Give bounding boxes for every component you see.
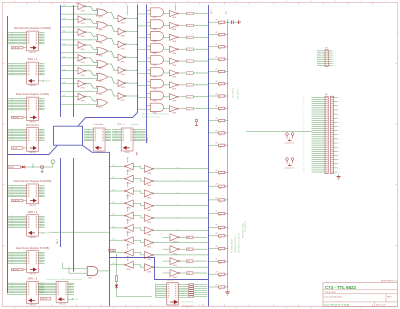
svg-text:N12: N12 [338,122,341,124]
svg-text:P10: P10 [303,118,305,120]
bus Z (bottom link B5 to B4) [110,258,209,280]
svg-text:74F32: 74F32 [99,68,103,70]
AND gate U23B [137,20,164,31]
svg-text:R6: R6 [219,85,221,87]
svg-text:74F08: 74F08 [153,65,157,67]
inverter U22E [108,64,138,76]
net label box row 4 [186,60,193,62]
OR gate U21H [61,97,108,109]
svg-text:4K7: 4K7 [216,170,219,172]
IC U1 (DDRA latch 74573) [7,27,51,54]
svg-text:DPB_RD: DPB_RD [41,299,48,301]
svg-text:P27: P27 [303,153,305,155]
IC U8b (port B read buffer) [38,282,79,306]
svg-text:74HC573: 74HC573 [29,205,36,207]
svg-text:P11: P11 [303,120,305,122]
wire VCC stub (label column top) [175,5,177,11]
svg-text:P21: P21 [303,140,305,142]
net label DRB_RD (IC U6 (DRB+2 buffer 74245)) [38,232,41,234]
svg-text:74F32: 74F32 [99,94,103,96]
LED D2 [115,285,118,288]
inverter U30E (bus driver, faces left) [109,207,141,222]
svg-text:74F32: 74F32 [99,30,103,32]
inverter U32A [163,234,208,244]
svg-text:74245: 74245 [125,152,130,154]
svg-text:R15: R15 [219,215,222,217]
svg-text:R8: R8 [219,110,221,112]
inverter U30B (bus driver, faces left) [109,170,141,185]
svg-text:4K7: 4K7 [216,225,219,227]
svg-text:P33: P33 [303,165,305,167]
svg-text:74F04: 74F04 [121,87,125,89]
net label ORB_WR (IC U7 (ORB latch 74573)) [11,268,23,270]
inverter U31E [141,215,208,225]
svg-text:DRB_RD: DRB_RD [44,233,51,235]
bus serpentine exit to B5 [83,145,110,306]
svg-text:P36: P36 [303,171,305,173]
inverter U30I (bus driver, faces left) [109,256,141,271]
svg-text:74F04: 74F04 [126,232,130,234]
inverter U20G [60,80,86,89]
svg-text:74F04: 74F04 [147,173,151,175]
svg-text:74F04: 74F04 [81,101,85,103]
svg-text:P32: P32 [303,163,305,165]
svg-text:74F04: 74F04 [147,198,151,200]
svg-text:CB0: CB0 [187,237,190,239]
svg-text:74F04: 74F04 [147,271,151,273]
svg-text:4K7: 4K7 [216,106,219,108]
wire VCC stub (col3 top) [127,5,129,15]
inverter U32D [163,270,208,280]
svg-text:R5: R5 [219,73,221,75]
svg-text:74F04: 74F04 [81,36,85,38]
svg-text:PB4_IN: PB4_IN [176,216,180,218]
svg-text:4K7: 4K7 [216,20,219,22]
AND gate U23I [137,103,163,114]
wire [116,288,118,297]
svg-text:R12: R12 [219,174,222,176]
supply flags A VCC flag 2 [291,133,294,139]
svg-text:N36: N36 [338,171,341,173]
svg-text:Data Output Register A (ORA): Data Output Register A (ORA) [16,93,50,96]
IC U4 (Port Input A 74245) [7,124,44,154]
svg-text:R16: R16 [219,229,222,231]
inverter U24H [163,94,208,103]
testpoint circle (reset line) [51,160,55,164]
svg-text:R2: R2 [219,36,221,38]
svg-text:Y3_O: Y3_O [187,49,190,51]
svg-text:74573: 74573 [97,152,102,154]
svg-text:SV2: SV2 [325,94,328,96]
svg-text:DDRB_WRITE_STROBE_SEL: DDRB_WRITE_STROBE_SEL [239,232,241,253]
svg-text:SV1: SV1 [325,48,328,50]
svg-text:R4: R4 [219,61,221,63]
svg-text:74F04: 74F04 [173,241,177,243]
svg-text:PB0: PB0 [113,165,116,167]
svg-text:CB2: CB2 [187,261,190,263]
supply flags B VCC flag [286,158,289,164]
svg-text:PB4: PB4 [113,214,116,216]
wire DRB_RD to bus B5 [50,231,110,233]
resistor R21 (pull-up) [208,284,228,290]
inverter U32B [163,246,208,256]
svg-text:P22: P22 [303,142,305,144]
svg-text:TTL 6522 release 2: TTL 6522 release 2 [182,305,194,307]
svg-text:PDR[0..7]: PDR[0..7] [147,135,149,142]
svg-text:R11: R11 [219,147,222,149]
svg-text:DRA + 2: DRA + 2 [28,58,38,61]
net label box row 5 [186,72,193,74]
svg-text:N34: N34 [338,167,341,169]
inverter U20H [60,93,86,102]
inverter U22G [108,90,138,102]
wire (reset feed) [116,255,118,276]
OR gate U21A [61,6,108,18]
svg-text:1: 1 [1,276,2,278]
svg-text:N22: N22 [338,142,341,144]
resistor R14 (pull-up) [208,197,228,203]
inverter U24E [163,58,208,67]
svg-text:74F04: 74F04 [121,36,125,38]
bus B3 (buffered bus, lower) [73,158,75,272]
svg-text:74F04: 74F04 [147,259,151,261]
inverter U30G (bus driver, faces left) [109,231,141,246]
svg-text:Port Reader: Port Reader [94,123,104,126]
svg-text:N24: N24 [338,147,341,149]
inverter U22B [108,25,138,37]
resistor R20 (pull-up) [208,272,228,278]
AND gate U23A [137,8,164,19]
OR gate U21G [61,84,108,96]
net label DDRB_WR (IC U5 (DDRB latch 74573)) [11,199,23,201]
svg-text:CB0: CB0 [197,236,200,238]
inverter U30A (bus driver, faces left) [109,157,141,172]
net label DRA_RD (IC U2 (DRA+2 buffer 74245)) [38,80,41,82]
net label box row 8 [186,108,193,110]
resistor R7 (pull-up) [208,93,228,99]
net label PIA_RD (IC U4 (Port Input A 74245)) [11,147,23,149]
svg-text:4K7: 4K7 [216,44,219,46]
svg-text:4K7: 4K7 [216,197,219,199]
svg-text:74F04: 74F04 [172,77,176,79]
net label box U32D [186,272,193,274]
inverter U31C [141,190,208,200]
svg-text:PB2: PB2 [113,189,116,191]
svg-text:P18: P18 [303,134,305,136]
IC U8 (DPB+2 buffer 74245) [7,278,44,307]
svg-text:4K7: 4K7 [216,130,219,132]
svg-text:4K7: 4K7 [216,246,219,248]
svg-text:74F04: 74F04 [81,23,85,25]
svg-text:74F08: 74F08 [153,53,157,55]
svg-text:N26: N26 [338,151,341,153]
svg-text:4K7: 4K7 [216,118,219,120]
svg-text:B: B [39,1,40,3]
IC U7 (ORB latch 74573) [7,247,49,276]
svg-text:74F04: 74F04 [126,183,130,185]
svg-text:N16: N16 [338,130,341,132]
inverter U20A [60,3,86,12]
net label ORA_WR (IC U3 (ORA latch 74573)) [11,116,23,118]
inverter U31F [141,227,208,237]
svg-text:74HC245: 74HC245 [29,305,36,307]
svg-text:74F04: 74F04 [147,210,151,212]
svg-text:74F32: 74F32 [99,55,103,57]
svg-text:PB8: PB8 [113,263,116,265]
svg-text:3: 3 [1,154,2,156]
net label box row 3 [186,48,193,50]
svg-text:74HC573: 74HC573 [29,52,36,54]
svg-text:P26: P26 [303,151,305,153]
inverter U31H [141,251,208,261]
svg-text:4K7: 4K7 [216,69,219,71]
svg-text:74F32: 74F32 [99,42,103,44]
svg-text:R14: R14 [219,202,222,204]
wire [116,281,118,284]
inverter U24B [163,22,208,31]
svg-text:P12: P12 [303,122,305,124]
inverter U31B [141,178,208,188]
svg-text:74HC245: 74HC245 [29,237,36,239]
svg-text:Date: 8/25/2013 17:29:42: Date: 8/25/2013 17:29:42 [325,303,350,306]
svg-text:74F04: 74F04 [81,10,85,12]
svg-text:Y5_O: Y5_O [187,73,190,75]
svg-text:4K7: 4K7 [216,57,219,59]
net label box row 6 [186,84,193,86]
inverter U31A [141,165,208,175]
net label box row 2 [186,36,193,38]
OR gate U21D [61,45,108,57]
resistor R24 (reset pull) [41,166,44,168]
net label RES (reset line) [8,166,21,169]
svg-text:Y8_O: Y8_O [187,108,190,110]
inverter U31G [141,239,208,249]
svg-text:RESET: RESET [9,167,14,169]
svg-text:74F04: 74F04 [172,41,176,43]
IC U12 (PDR+2 buffer) [112,128,146,154]
svg-text:4K7: 4K7 [216,211,219,213]
svg-text:74HC573: 74HC573 [29,274,36,276]
svg-text:1: 1 [398,276,399,278]
OR gate U21B [61,19,108,31]
svg-text:PB3: PB3 [113,202,116,204]
OR gate U21F [61,71,108,83]
svg-text:PB5: PB5 [113,226,116,228]
supply flags B ground [288,164,292,166]
svg-text:P20: P20 [303,138,305,140]
svg-text:2: 2 [1,215,2,217]
svg-text:4K7: 4K7 [216,272,219,274]
resistor R1 (pull-up) [208,20,228,26]
svg-text:R9: R9 [219,122,221,124]
svg-text:P23: P23 [303,145,305,147]
svg-text:C74 - TTL 6522: C74 - TTL 6522 [325,285,356,290]
ground (resistor column bottom) [225,289,229,295]
svg-text:74F04: 74F04 [173,277,177,279]
diode D1 on reset line [22,166,25,169]
svg-text:74F04: 74F04 [126,171,130,173]
resistor R10 (pull-up) [208,130,228,136]
svg-text:Y0_O: Y0_O [187,13,190,15]
net label box row 0 [186,12,193,14]
svg-text:R21: R21 [219,289,222,291]
svg-text:2: 2 [398,215,399,217]
resistor R6 (pull-up) [208,81,228,87]
jumper block JP1 [189,284,207,298]
svg-text:CB1: CB1 [187,249,190,251]
svg-text:P14: P14 [303,126,305,128]
inverter U22F [108,77,138,89]
AND gate G1 (port B enable) [63,263,109,280]
svg-text:T: T [384,1,385,3]
svg-text:74F04: 74F04 [121,23,125,25]
svg-text:PB_EN: PB_EN [110,250,114,252]
svg-text:74F08: 74F08 [153,100,157,102]
svg-text:P34: P34 [303,167,305,169]
svg-text:74F04: 74F04 [81,49,85,51]
svg-text:74F04: 74F04 [126,245,130,247]
svg-text:Data Direction Register B (DDR: Data Direction Register B (DDRB) [14,180,52,183]
ground (SV2) [337,174,341,180]
resistor R13 (pull-up) [208,184,228,190]
svg-text:P35: P35 [303,169,305,171]
resistor R11 (pull-up) [208,143,228,149]
svg-text:74F04: 74F04 [173,253,177,255]
svg-text:N10: N10 [338,118,341,120]
AND gate U23E [137,56,163,67]
svg-text:74F04: 74F04 [126,195,130,197]
svg-text:74F04: 74F04 [172,112,176,114]
OR gate U21C [61,32,108,44]
net label DDRA_WR (IC U1 (DDRA latch 74573)) [11,47,23,49]
svg-text:74F32: 74F32 [99,81,103,83]
svg-text:P31: P31 [303,161,305,163]
svg-text:PB0_IN: PB0_IN [176,167,180,169]
resistor R4 (pull-up) [208,57,228,63]
svg-text:DRB + 2: DRB + 2 [28,211,38,214]
inverter U24I [163,106,208,115]
bus B7 [146,5,148,144]
svg-text:74F04: 74F04 [81,88,85,90]
svg-text:74F04: 74F04 [147,222,151,224]
svg-text:DPB + 2: DPB + 2 [28,278,38,281]
svg-text:N14: N14 [338,126,341,128]
net label box U32A [186,236,193,238]
svg-text:F: F [138,1,139,3]
net label box U32B [186,248,193,250]
svg-text:R17: R17 [219,237,222,239]
IC U9 (control register 74573) [156,280,189,305]
inverter U30H (bus driver, faces left) [109,243,141,258]
svg-text:R19: R19 [219,263,222,265]
svg-text:N32: N32 [338,163,341,165]
net label PB_RD (IC U8b (port B read buffer)) [68,298,71,300]
svg-text:5: 5 [398,32,399,34]
svg-text:P30: P30 [303,159,305,161]
svg-text:74HC245: 74HC245 [59,303,66,305]
svg-text:P29: P29 [303,157,305,159]
svg-text:REV:: REV: [387,297,392,299]
IC U5 (DDRB latch 74573) [7,180,51,207]
svg-text:PB6: PB6 [113,239,116,241]
svg-text:74F04: 74F04 [172,17,176,19]
inverter U24F [163,70,208,79]
svg-text:P17: P17 [303,132,305,134]
svg-text:4K7: 4K7 [216,259,219,261]
inverter U32C [163,258,208,268]
inverter U31I [141,264,208,274]
inverter U20F [60,67,86,76]
svg-text:L: L [261,1,262,3]
svg-text:R1: R1 [219,24,221,26]
svg-text:PB1_IN: PB1_IN [176,180,180,182]
svg-text:74HC245: 74HC245 [29,152,36,154]
svg-text:74F04: 74F04 [81,62,85,64]
net label box row 1 [186,24,193,26]
svg-text:P13: P13 [303,124,305,126]
resistor R15 (pull-up) [208,211,228,217]
svg-text:4K7: 4K7 [216,284,219,286]
svg-text:74F04: 74F04 [172,89,176,91]
inverter U31D [141,202,208,212]
inverter U20B [60,16,86,25]
svg-text:R20: R20 [219,276,222,278]
svg-text:74F04: 74F04 [147,247,151,249]
svg-text:Data Output Register B (ORB): Data Output Register B (ORB) [16,247,50,250]
svg-text:D[0..7]: D[0..7] [211,9,213,14]
svg-text:5: 5 [1,32,2,34]
svg-text:74F04: 74F04 [173,265,177,267]
svg-text:P28: P28 [303,155,305,157]
svg-text:R18: R18 [219,250,222,252]
svg-text:4K7: 4K7 [216,93,219,95]
svg-text:Document Number:: Document Number: [325,296,343,299]
svg-text:CB3: CB3 [187,273,190,275]
svg-text:4K7: 4K7 [216,184,219,186]
inverter U20E [60,55,86,64]
inverter U22A [108,12,138,24]
svg-text:74F04: 74F04 [121,100,125,102]
svg-text:74F32: 74F32 [99,17,103,19]
title block [323,283,397,307]
capacitor C1 [228,20,237,24]
svg-text:Y2_O: Y2_O [187,37,190,39]
supply flags A VCC flag [286,133,289,139]
svg-text:74HC245: 74HC245 [29,85,36,87]
bus B1 (left data bus) [7,16,9,293]
resistor R19 (pull-up) [208,259,228,265]
svg-text:4: 4 [398,93,399,95]
supply flags A ground [288,139,292,141]
IC U3 (ORA latch 74573) [7,93,49,123]
svg-text:74F04: 74F04 [121,61,125,63]
svg-text:R7: R7 [219,98,221,100]
bus B2 (inner data bus, lower) [60,158,62,247]
svg-text:74F04: 74F04 [126,269,130,271]
svg-text:74F04: 74F04 [121,48,125,50]
svg-text:4K7: 4K7 [216,81,219,83]
svg-text:Port Input A: Port Input A [26,124,39,127]
net label box (U8a) [40,298,50,300]
wire reset [21,166,53,168]
bus B3 (buffered bus, upper) [73,5,75,117]
svg-text:P: P [335,1,336,3]
resistor R3 (pull-up) [208,44,228,50]
AND gate U23D [137,44,164,55]
svg-text:PDR + 2: PDR + 2 [117,124,126,126]
inverter U24C [163,34,208,43]
svg-text:CB2: CB2 [197,260,200,262]
